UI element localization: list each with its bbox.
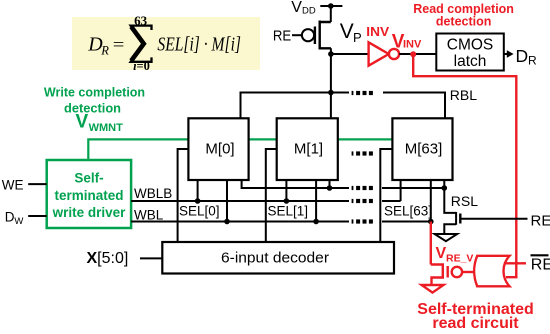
wire SEL[1] xyxy=(266,149,277,242)
node V_RE_V tap (WBL end) xyxy=(428,219,434,225)
svg-text:Self-: Self- xyxy=(74,171,103,186)
svg-text:RE_V: RE_V xyxy=(446,253,473,265)
wire VDD to PMOS xyxy=(330,6,332,22)
wire WE xyxy=(28,183,47,185)
junction M[1]-WBL xyxy=(313,219,319,225)
ellipsis dots row RBL xyxy=(352,91,373,95)
memory cell M[63] xyxy=(392,118,452,180)
svg-text:write driver: write driver xyxy=(52,205,127,220)
svg-text:detection: detection xyxy=(436,15,492,29)
wire WBL xyxy=(131,221,431,223)
svg-text:WE: WE xyxy=(2,177,24,192)
svg-text:M[0]: M[0] xyxy=(205,140,234,157)
wire RE to pmos xyxy=(292,34,302,36)
svg-text:RBL: RBL xyxy=(450,87,477,103)
inverter INV xyxy=(369,42,389,65)
memory cell M[0] xyxy=(188,118,248,180)
wire latch output xyxy=(504,53,508,55)
svg-text:V: V xyxy=(436,245,447,262)
green net V_WMNT wire xyxy=(88,139,392,160)
svg-text:RSL: RSL xyxy=(451,193,478,209)
ground (RSL source) xyxy=(435,234,458,241)
wire X to decoder xyxy=(140,257,162,259)
svg-text:detection: detection xyxy=(64,101,121,115)
svg-text:INV: INV xyxy=(403,39,422,51)
svg-text:RE: RE xyxy=(531,256,550,273)
svg-text:6-input decoder: 6-input decoder xyxy=(221,251,329,267)
svg-text:63: 63 xyxy=(134,13,148,28)
svg-text:SEL[0]: SEL[0] xyxy=(179,204,220,219)
svg-text:SEL[63]: SEL[63] xyxy=(384,204,432,219)
svg-text:i=0: i=0 xyxy=(133,59,150,73)
ellipsis dots row line A xyxy=(352,186,373,190)
svg-text:CMOS: CMOS xyxy=(447,37,494,54)
svg-text:V: V xyxy=(291,0,302,16)
wire inverter to latch xyxy=(399,53,436,55)
wire WBLB xyxy=(131,200,401,202)
REbar label xyxy=(531,254,549,256)
junction M[0]-WBLB xyxy=(195,198,201,204)
svg-text:P: P xyxy=(353,30,362,45)
svg-text:WBL: WBL xyxy=(134,208,164,223)
svg-text:D: D xyxy=(516,46,529,66)
VDD rail xyxy=(320,5,342,7)
NOR gate (mirrored, self-terminated read) xyxy=(474,256,509,286)
junction M[1]-WBLB xyxy=(284,198,290,204)
formula D_R = sum SEL[i]*M[i] xyxy=(87,13,241,73)
red ground xyxy=(422,285,444,293)
wire SEL[0] xyxy=(178,149,189,242)
wire gate bubble to NOR output xyxy=(462,271,474,273)
svg-text:DD: DD xyxy=(302,5,316,16)
transistor (self-terminated read pmos) xyxy=(431,263,462,284)
svg-text:X[5:0]: X[5:0] xyxy=(87,250,129,267)
svg-text:SEL[i] · M[i]: SEL[i] · M[i] xyxy=(157,34,241,56)
ellipsis dots row SEL entries xyxy=(352,151,373,155)
output arrowhead xyxy=(507,50,514,58)
wire SEL[63] xyxy=(380,149,392,242)
svg-text:RE: RE xyxy=(531,212,550,229)
memory cell M[1] xyxy=(277,118,338,180)
node V_P xyxy=(328,51,334,57)
svg-text:INV: INV xyxy=(366,24,389,39)
junction M[63]-RSL bus xyxy=(442,185,448,191)
node V_INV red dot xyxy=(410,51,416,57)
wire RSL gate to RE xyxy=(460,218,527,220)
svg-text:read circuit: read circuit xyxy=(432,315,519,332)
red feedback wire V_INV down to NOR xyxy=(413,54,516,277)
CMOS latch box U1 xyxy=(436,34,504,71)
svg-text:WMNT: WMNT xyxy=(89,122,123,134)
pmos pull-up transistor xyxy=(302,21,331,50)
svg-text:Write completion: Write completion xyxy=(44,85,145,99)
svg-text:V: V xyxy=(76,112,89,133)
NOR input wire REbar xyxy=(505,262,526,264)
svg-text:R: R xyxy=(100,44,109,58)
wire V_P to inverter xyxy=(331,53,369,55)
M[1] bottom stubs xyxy=(286,180,329,222)
svg-text:D: D xyxy=(5,209,15,224)
red wire V_RE_V from WBL end xyxy=(430,222,432,265)
write driver box (self-terminated write driver) xyxy=(47,160,131,228)
svg-text:W: W xyxy=(14,216,23,227)
M[0] bottom stubs xyxy=(198,180,227,222)
wire V_P vertical to RBL and M[1] xyxy=(330,48,332,118)
svg-text:latch: latch xyxy=(454,53,487,70)
junction M[1]-RSL bus xyxy=(327,185,333,191)
transistor RSL (read select nmos) xyxy=(444,188,460,234)
svg-text:M[1]: M[1] xyxy=(294,140,323,157)
svg-text:RE: RE xyxy=(273,28,291,45)
wire DW xyxy=(28,215,47,217)
svg-text:SEL[1]: SEL[1] xyxy=(268,204,309,219)
svg-text:R: R xyxy=(528,54,537,68)
RBL wire xyxy=(241,93,446,119)
decoder box xyxy=(162,242,394,274)
svg-text:WBLB: WBLB xyxy=(134,186,172,201)
svg-text:=: = xyxy=(113,35,125,54)
ellipsis dots row WBLB xyxy=(352,199,373,203)
junction M[0]-WBL xyxy=(224,219,230,225)
junction VDD xyxy=(328,3,334,9)
formula box background xyxy=(72,17,260,70)
wire line A (cell read-select bus) xyxy=(242,180,445,188)
ellipsis dots row WBL xyxy=(352,219,373,223)
svg-text:terminated: terminated xyxy=(54,188,123,203)
junction RBL xyxy=(328,90,334,96)
svg-text:M[63]: M[63] xyxy=(405,140,443,157)
svg-text:V: V xyxy=(340,20,354,43)
M[63] bottom stubs xyxy=(401,180,445,222)
